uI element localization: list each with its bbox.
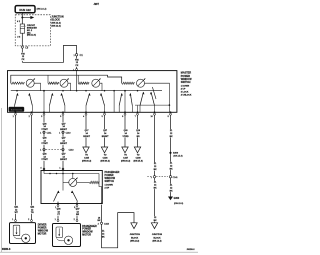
wire center drop x114.1 bbox=[113, 91, 115, 113]
svg-text:BLOCK: BLOCK bbox=[51, 19, 60, 22]
wire LED3 out bbox=[100, 83, 102, 91]
wire w7 bbox=[124, 115, 126, 147]
node pin dot 9 bbox=[62, 111, 64, 113]
pin 5 bbox=[104, 113, 106, 115]
svg-text:4 UNLOCK: 4 UNLOCK bbox=[181, 93, 192, 96]
svg-text:SWITCH: SWITCH bbox=[105, 180, 115, 183]
wire switch stub x119.2 bbox=[118, 106, 120, 113]
resistor R4 bbox=[122, 82, 135, 84]
svg-text:VT/WT: VT/WT bbox=[41, 143, 48, 145]
wire label w3b bbox=[41, 137, 47, 145]
pin 1 bottom bbox=[57, 204, 59, 206]
pin 1 bbox=[15, 113, 17, 115]
switch rocker T1 bbox=[15, 93, 18, 105]
wire switch stub x154.5 bbox=[154, 106, 156, 113]
resistor R1 bbox=[11, 82, 24, 84]
window lift symbol 2 bbox=[56, 227, 63, 238]
svg-text:MOTOR: MOTOR bbox=[82, 234, 91, 236]
node pin dot 4 bbox=[85, 111, 87, 113]
wire switch stub x86.0 bbox=[85, 106, 87, 113]
svg-text:J988W-8: J988W-8 bbox=[187, 249, 196, 251]
svg-text:JUNCTION: JUNCTION bbox=[130, 234, 141, 236]
svg-text:S300: S300 bbox=[173, 153, 179, 155]
svg-text:C211: C211 bbox=[47, 132, 53, 134]
node bus junction x114.1 bbox=[113, 90, 115, 92]
svg-text:MOTOR: MOTOR bbox=[38, 233, 47, 235]
resistor R3 bbox=[78, 82, 89, 84]
svg-text:BR: BR bbox=[137, 136, 140, 138]
node bus junction x86.0 bbox=[85, 90, 87, 92]
svg-text:BK: BK bbox=[170, 136, 173, 138]
wire label w4b bbox=[60, 137, 66, 145]
wire LED2 out bbox=[68, 83, 71, 91]
svg-text:WINDOW: WINDOW bbox=[82, 232, 93, 234]
wire R5 out bbox=[98, 174, 100, 183]
svg-text:2 UP: 2 UP bbox=[105, 188, 110, 190]
pin 1 passenger motor bbox=[57, 220, 59, 222]
pin 10 bbox=[154, 113, 156, 115]
svg-text:AUTO DOWN: AUTO DOWN bbox=[11, 108, 23, 111]
wire LED5 leads bbox=[63, 181, 69, 183]
wire label w9b bbox=[154, 216, 157, 222]
svg-text:1 DOWN: 1 DOWN bbox=[181, 86, 190, 88]
switch rocker T4 bbox=[119, 93, 122, 105]
svg-text:BK: BK bbox=[98, 220, 101, 222]
svg-text:C208: C208 bbox=[136, 158, 142, 160]
lamp LED5 bbox=[69, 178, 77, 186]
svg-text:BLOCK: BLOCK bbox=[131, 237, 139, 239]
wire interior rail bbox=[44, 173, 99, 175]
junction block dashed outline bbox=[15, 15, 50, 46]
node bus junction x44.0 bbox=[43, 90, 45, 92]
page border rule left bbox=[0, 108, 2, 252]
pin 4 bbox=[43, 168, 45, 170]
auto down module bbox=[9, 107, 24, 112]
lamp LED4 bbox=[137, 79, 145, 87]
svg-text:BK: BK bbox=[170, 168, 173, 170]
node pin dot 3 bbox=[43, 111, 45, 113]
wire label w4c bbox=[60, 153, 66, 161]
splice S300 bbox=[169, 152, 171, 154]
wire switch stub x14.6 bbox=[14, 106, 16, 113]
off-page connector arrow bbox=[83, 147, 89, 153]
pin 1 bbox=[62, 168, 64, 170]
wire label w3c bbox=[41, 153, 47, 161]
wire label w2b bbox=[30, 206, 34, 214]
svg-text:G300: G300 bbox=[174, 198, 180, 200]
svg-text:C326: C326 bbox=[103, 158, 109, 160]
connector C210 right half bbox=[62, 131, 64, 133]
svg-text:(8W-12-2): (8W-12-2) bbox=[51, 23, 61, 25]
node bus junction x63.0 bbox=[62, 90, 64, 92]
wire w2 driver up bbox=[31, 115, 33, 220]
wire LED1 out bbox=[34, 83, 40, 91]
passenger power window switch box bbox=[41, 171, 102, 204]
svg-text:BK: BK bbox=[170, 190, 173, 192]
wire label ground b bbox=[102, 230, 105, 238]
node bus junction x44.0 bbox=[43, 90, 45, 92]
svg-text:(8W-10-2): (8W-10-2) bbox=[37, 9, 47, 11]
feed arrow bbox=[22, 17, 30, 19]
wire passenger ground path bbox=[101, 205, 103, 222]
wire w1 driver down bbox=[15, 115, 17, 220]
svg-text:TO: TO bbox=[137, 155, 140, 157]
svg-text:(8W-12-3): (8W-12-3) bbox=[51, 26, 61, 28]
svg-text:BK: BK bbox=[154, 220, 157, 222]
pin 2 driver motor bbox=[31, 220, 33, 222]
svg-text:BK: BK bbox=[154, 187, 157, 189]
node return junction bbox=[169, 104, 171, 106]
wire LED4 return bbox=[145, 83, 170, 105]
svg-text:TO: TO bbox=[85, 155, 88, 157]
wire LED5 top feed bbox=[72, 174, 74, 179]
svg-text:POWER: POWER bbox=[38, 228, 47, 230]
svg-text:(8W-60-2): (8W-60-2) bbox=[121, 161, 130, 163]
switch rocker T6 bbox=[54, 191, 59, 202]
fuse feed tag RUN A22 bbox=[15, 6, 35, 13]
node bus junction x125.0 bbox=[124, 90, 126, 92]
off-page connector arrow bbox=[122, 147, 128, 153]
wire w10 ground bbox=[170, 115, 172, 197]
motor M1 bbox=[22, 234, 30, 242]
wire center drop x125.0 bbox=[124, 91, 126, 113]
wire label w9c bbox=[154, 181, 157, 189]
page border rule bottom bbox=[0, 251, 198, 253]
wire w8 bbox=[137, 115, 139, 147]
svg-text:C210: C210 bbox=[66, 132, 72, 134]
svg-text:BR/WT: BR/WT bbox=[60, 159, 67, 161]
node pin dot 1 bbox=[15, 111, 17, 113]
wire w4 passenger up feed bbox=[62, 115, 64, 171]
svg-text:PASSENGER: PASSENGER bbox=[82, 225, 97, 228]
node bus junction x17.0 bbox=[16, 90, 18, 92]
wire w6 bbox=[104, 115, 106, 147]
pin 8 bbox=[170, 113, 172, 115]
svg-text:TO: TO bbox=[124, 155, 127, 157]
wire right rail bbox=[135, 104, 169, 106]
lamp LED1 bbox=[26, 79, 34, 87]
node pin dot 10 bbox=[154, 111, 156, 113]
node bus junction x76.6 bbox=[76, 90, 78, 92]
lamp LED2 bbox=[60, 79, 68, 87]
wire lamp return stub bbox=[168, 105, 170, 112]
connector C211 bbox=[43, 131, 45, 133]
wire switch stub x140.0 bbox=[139, 106, 141, 113]
wire switch stub x32.3 bbox=[31, 106, 33, 113]
pin 2 passenger motor bbox=[76, 220, 78, 222]
wire switch stub x137.5 bbox=[137, 106, 139, 113]
connector C1 bbox=[75, 54, 77, 56]
svg-text:3 LOCK: 3 LOCK bbox=[181, 92, 189, 94]
wire switch stub x132.3 bbox=[131, 106, 133, 113]
wire run to C1 bbox=[22, 45, 76, 62]
svg-text:BLOCK: BLOCK bbox=[153, 237, 161, 239]
node pins bottom bbox=[57, 203, 59, 205]
resistor R5 bbox=[89, 181, 99, 183]
svg-text:(8W-12-6): (8W-12-6) bbox=[27, 35, 36, 37]
switch rocker T5 bbox=[140, 92, 143, 106]
wire label w3 bbox=[41, 123, 47, 131]
off-page connector arrow w8 bbox=[134, 147, 140, 153]
node pin dot 8 bbox=[170, 111, 172, 113]
wire breaker to connector bbox=[21, 33, 23, 46]
motor M2 bbox=[64, 236, 72, 244]
driver power window motor box bbox=[10, 223, 36, 244]
svg-text:C141: C141 bbox=[173, 177, 179, 179]
svg-text:C327: C327 bbox=[123, 158, 129, 160]
off-page arrow to junction block bbox=[151, 223, 157, 229]
node pin dot 2 bbox=[31, 111, 33, 113]
svg-text:(8W-12-2): (8W-12-2) bbox=[153, 241, 162, 243]
wire label Q27 bbox=[102, 129, 108, 137]
resistor R2 bbox=[48, 82, 59, 84]
wire label Q17 bbox=[83, 129, 89, 137]
svg-text:RD/WT: RD/WT bbox=[83, 136, 90, 138]
svg-text:(8W-12-2): (8W-12-2) bbox=[130, 241, 139, 243]
wire label w10c bbox=[170, 184, 173, 192]
svg-text:1 DOWN: 1 DOWN bbox=[105, 185, 114, 187]
pin 8 bottom bbox=[76, 204, 78, 206]
pin 6 bbox=[124, 113, 126, 115]
svg-text:BR: BR bbox=[76, 214, 79, 216]
wire label w1b bbox=[14, 206, 18, 214]
node rail junction x63.0 bbox=[62, 173, 64, 175]
node rail junction x50.0 bbox=[49, 173, 51, 175]
wire label w9 bbox=[154, 162, 157, 170]
wire center drop x44.0 bbox=[43, 91, 45, 113]
wire label F35 12 PK bbox=[75, 59, 79, 67]
node feed junction bbox=[21, 17, 23, 19]
wire ground run bbox=[102, 213, 135, 248]
connector C141 right half bbox=[169, 176, 171, 178]
svg-text:DRIVER: DRIVER bbox=[38, 225, 47, 227]
node pin dot 6 bbox=[124, 111, 126, 113]
window lift symbol bbox=[13, 225, 20, 236]
connector C141 left half bbox=[153, 176, 155, 178]
off-page arrow to junction block 1 bbox=[131, 223, 137, 229]
wire label ground a bbox=[98, 216, 101, 222]
svg-text:(8W-15-8): (8W-15-8) bbox=[134, 161, 143, 163]
wire w9 ground to junction block bbox=[154, 115, 156, 223]
wire label w8 bbox=[136, 129, 140, 137]
svg-text:WINDOW: WINDOW bbox=[38, 230, 49, 232]
svg-text:C324: C324 bbox=[104, 224, 110, 226]
node bus junction x104.5 bbox=[104, 90, 106, 92]
wire label pass down bbox=[57, 208, 61, 216]
svg-text:2 UP: 2 UP bbox=[181, 89, 186, 91]
svg-text:TO: TO bbox=[104, 155, 107, 157]
battery feed bus bbox=[11, 90, 162, 92]
pin 4 bbox=[85, 113, 87, 115]
svg-text:RUN A22: RUN A22 bbox=[19, 8, 31, 12]
pin 7 bbox=[137, 113, 139, 115]
svg-text:BR/WT: BR/WT bbox=[60, 143, 67, 145]
wire passenger down bbox=[57, 206, 59, 219]
svg-text:BR/WT: BR/WT bbox=[102, 136, 109, 138]
wire label Q28 bbox=[122, 129, 128, 137]
off-page connector arrow bbox=[101, 147, 107, 153]
svg-text:POWER: POWER bbox=[82, 229, 91, 231]
svg-text:VT/RD: VT/RD bbox=[123, 136, 130, 138]
lamp LED3 bbox=[92, 79, 100, 87]
svg-text:BK: BK bbox=[154, 169, 157, 171]
svg-text:BK: BK bbox=[102, 236, 105, 238]
wire illumination feed rail bbox=[11, 75, 122, 83]
pin 3 bbox=[43, 113, 45, 115]
pin 9 bbox=[62, 113, 64, 115]
wire passenger up bbox=[76, 206, 78, 219]
wire T6 stubs bbox=[57, 202, 59, 204]
pin 1 driver motor bbox=[15, 220, 17, 222]
node rail junction x56.5 bbox=[56, 173, 58, 175]
wire label w10 bbox=[170, 129, 173, 137]
wire switch stub x104.5 bbox=[104, 106, 106, 113]
svg-text:(8W-60-2): (8W-60-2) bbox=[82, 161, 91, 163]
wire C1 drop bbox=[76, 45, 78, 70]
svg-text:(8W-15-8): (8W-15-8) bbox=[174, 203, 183, 205]
node bus junction x137.5 bbox=[137, 90, 139, 92]
connector C210 left half bbox=[43, 148, 45, 150]
wire switch stub x49.5 bbox=[49, 106, 51, 113]
node bus junction x125.0 bbox=[124, 90, 126, 92]
wire w5 bbox=[85, 115, 87, 147]
svg-text:J98T: J98T bbox=[94, 3, 100, 6]
svg-text:C325: C325 bbox=[84, 158, 90, 160]
passenger power window motor box bbox=[53, 224, 81, 247]
wire tag to breaker bbox=[21, 13, 23, 24]
switch rocker T2 bbox=[50, 93, 53, 105]
wire label w4 bbox=[60, 123, 66, 131]
wire F35 down bbox=[21, 48, 23, 62]
circuit breaker No.2 bbox=[20, 24, 24, 33]
wire ground drop inside bbox=[99, 182, 102, 203]
ground G300 bbox=[168, 197, 173, 201]
wire label w10b bbox=[170, 162, 173, 170]
svg-text:C210: C210 bbox=[69, 150, 75, 152]
svg-text:VT/WT: VT/WT bbox=[41, 129, 48, 131]
svg-text:BR/WT: BR/WT bbox=[60, 129, 67, 131]
wire rail drops bbox=[47, 75, 49, 83]
pin 2 bbox=[31, 113, 33, 115]
wire switch stub x64.9 bbox=[64, 106, 66, 113]
svg-text:(8W-15-8): (8W-15-8) bbox=[173, 156, 182, 158]
svg-text:VT/WT: VT/WT bbox=[41, 159, 48, 161]
wire C1 feed drop bbox=[76, 71, 78, 91]
connector C324 bbox=[100, 222, 102, 224]
switch lock contact bbox=[152, 87, 156, 99]
master power window switch box bbox=[8, 71, 177, 113]
node LED5 feed bbox=[72, 173, 74, 175]
wire w3 passenger down feed bbox=[43, 115, 45, 171]
connector C8 pin bbox=[21, 46, 23, 48]
pin 1 master switch top bbox=[76, 69, 78, 71]
wire label F35 12 PK bbox=[21, 53, 25, 61]
svg-text:(8W-60-2): (8W-60-2) bbox=[101, 161, 110, 163]
node pin dot 5 bbox=[104, 111, 106, 113]
switch rocker T3 bbox=[86, 93, 90, 105]
wire label pass up bbox=[76, 208, 80, 216]
svg-text:JUNCTION: JUNCTION bbox=[152, 234, 163, 236]
svg-text:8W80-8: 8W80-8 bbox=[2, 248, 11, 251]
svg-text:SWITCH: SWITCH bbox=[181, 81, 191, 84]
node pin dot 7 bbox=[137, 111, 139, 113]
